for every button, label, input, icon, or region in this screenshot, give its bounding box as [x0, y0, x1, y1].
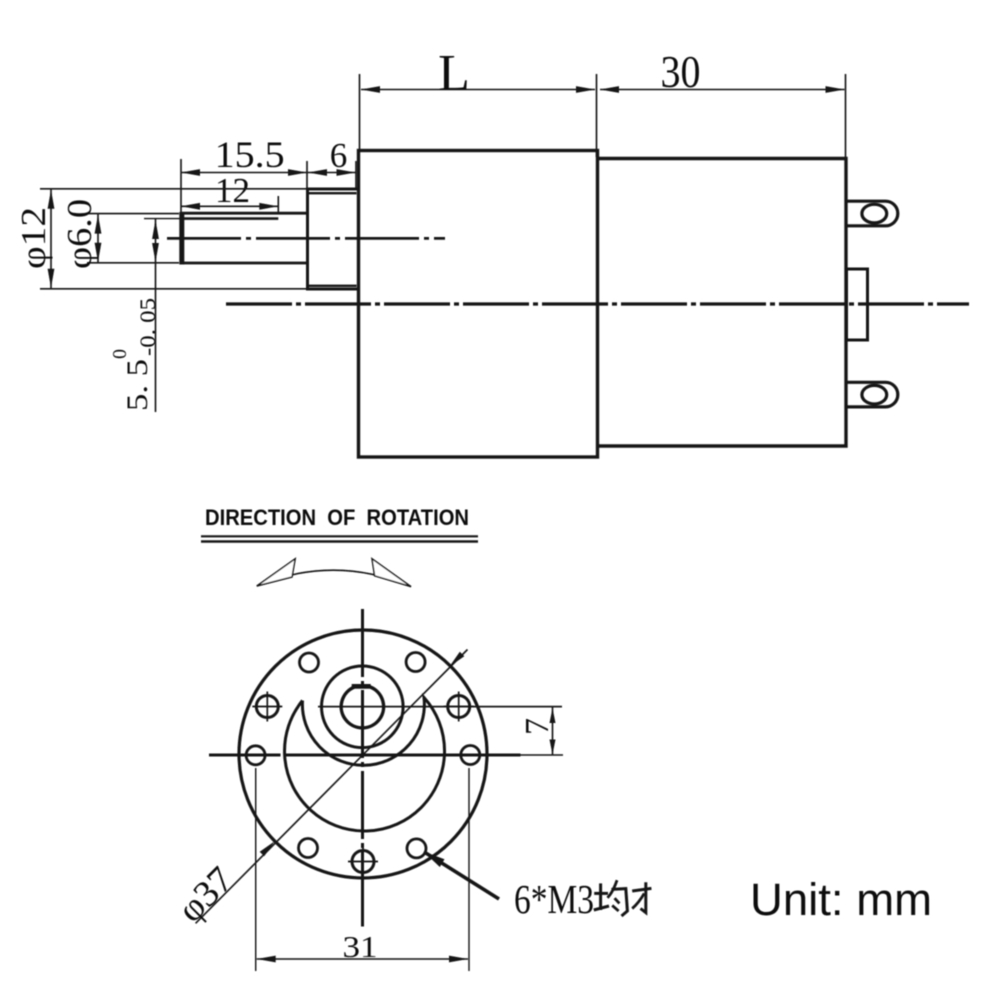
- svg-text:5. 5: 5. 5: [121, 359, 154, 411]
- svg-text:φ6.0: φ6.0: [60, 199, 99, 269]
- svg-text:L: L: [438, 45, 470, 102]
- svg-text:φ12: φ12: [14, 207, 53, 269]
- svg-text:0: 0: [109, 349, 131, 359]
- svg-text:15.5: 15.5: [215, 135, 285, 176]
- svg-text:-0. 05: -0. 05: [135, 298, 160, 356]
- svg-text:6: 6: [330, 136, 348, 175]
- svg-text:6*M3: 6*M3: [514, 876, 594, 922]
- svg-text:DIRECTION OF ROTATION: DIRECTION OF ROTATION: [205, 505, 469, 530]
- svg-text:12: 12: [215, 171, 250, 210]
- svg-text:31: 31: [343, 929, 378, 964]
- svg-text:7: 7: [519, 718, 556, 735]
- svg-text:30: 30: [661, 47, 701, 97]
- svg-text:Unit: mm: Unit: mm: [750, 874, 932, 925]
